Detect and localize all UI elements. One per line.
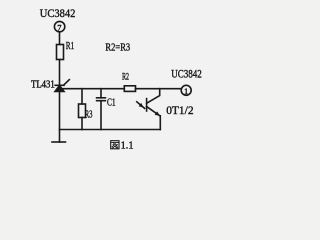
pin 7 terminal circle bbox=[54, 21, 64, 31]
label R2 bbox=[122, 72, 129, 82]
label UC3842 (top IC) bbox=[40, 6, 76, 20]
wire node A horizontal (TL431 to R2) bbox=[60, 88, 125, 90]
light arrow bbox=[137, 102, 145, 109]
svg-text:UC3842: UC3842 bbox=[171, 69, 202, 81]
svg-text:R1: R1 bbox=[66, 41, 74, 52]
bottom rail wire bbox=[60, 129, 161, 131]
svg-text:7: 7 bbox=[57, 22, 61, 32]
wire pin7 to R1 bbox=[59, 32, 61, 45]
svg-text:1: 1 bbox=[184, 86, 188, 96]
svg-text:R2: R2 bbox=[122, 72, 129, 82]
ground bbox=[52, 141, 66, 143]
svg-text:R2=R3: R2=R3 bbox=[105, 43, 130, 54]
collector lead bbox=[147, 89, 160, 104]
wire TL431 anode down to ground bbox=[59, 91, 61, 142]
svg-text:1.1: 1.1 bbox=[121, 141, 134, 152]
emitter lead with arrow bbox=[147, 107, 160, 116]
pin 1 terminal circle bbox=[181, 85, 191, 95]
wire R3 to bottom rail bbox=[81, 118, 83, 130]
label C1 bbox=[107, 97, 116, 108]
wire node A to R3 bbox=[81, 89, 83, 104]
svg-text:0T1/2: 0T1/2 bbox=[166, 105, 194, 117]
svg-text:UC3842: UC3842 bbox=[40, 6, 76, 20]
wire node A to C1 bbox=[100, 89, 102, 98]
label R3 bbox=[85, 109, 93, 120]
label R1 bbox=[66, 41, 74, 52]
svg-text:TL431: TL431 bbox=[31, 79, 55, 90]
pin number 7 bbox=[57, 22, 61, 32]
svg-text:R3: R3 bbox=[85, 109, 93, 120]
equation note R2=R3 bbox=[105, 43, 130, 54]
resistor R3 bbox=[79, 104, 86, 118]
base bar bbox=[146, 99, 148, 111]
capacitor C1 bbox=[97, 98, 106, 101]
wire R2 to pin1 circle bbox=[136, 88, 182, 90]
resistor R2 bbox=[124, 86, 135, 92]
resistor R1 bbox=[57, 45, 64, 60]
wire emitter to bottom rail bbox=[159, 116, 161, 130]
optocoupler phototransistor OT1/2 bbox=[137, 89, 160, 116]
label TL431 bbox=[31, 79, 55, 90]
label OT1/2 bbox=[166, 105, 194, 117]
figure caption 图1.1 bbox=[111, 141, 134, 152]
pin number 1 bbox=[184, 86, 188, 96]
TL431 shunt regulator bbox=[55, 80, 69, 92]
label UC3842 (right IC) bbox=[171, 69, 202, 81]
wire R1 to TL431 cathode bbox=[59, 60, 61, 86]
svg-text:C1: C1 bbox=[107, 97, 116, 108]
wire C1 to bottom rail bbox=[100, 101, 102, 130]
